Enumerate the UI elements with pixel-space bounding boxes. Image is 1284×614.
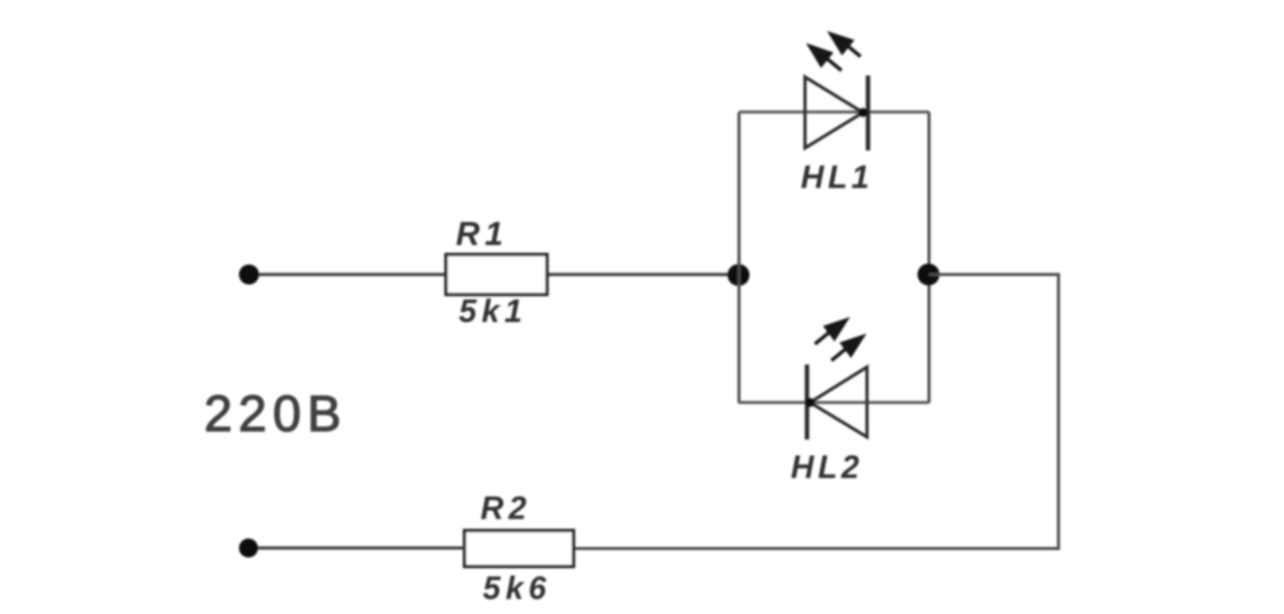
wire from R1 to left junction (547, 273, 739, 276)
node B : right junction (918, 264, 940, 286)
LED HL1 light-emission arrows (pointing up-left) (806, 31, 861, 71)
terminal node top-left (239, 265, 259, 285)
svg-text:R1: R1 (456, 215, 508, 252)
LED HL2 (cathode left, anode right) (806, 365, 868, 440)
wire : left rail of parallel branch (738, 112, 741, 403)
resistor R2 (465, 531, 574, 567)
svg-text:HL1: HL1 (801, 159, 873, 195)
svg-text:220В: 220В (204, 385, 347, 442)
svg-text:HL2: HL2 (791, 449, 863, 485)
node A : left junction (728, 264, 750, 286)
LED HL2 light-emission arrows (pointing up-right) (815, 317, 867, 361)
svg-text:5k1: 5k1 (459, 293, 527, 329)
wire : top branch through HL1 (739, 111, 929, 114)
svg-text:R2: R2 (481, 490, 532, 526)
resistor R1 (446, 255, 547, 295)
terminal node bottom-left (239, 539, 258, 558)
wire from node B right then down to bottom rail (574, 275, 1059, 549)
wire : right rail of parallel branch (928, 112, 931, 403)
wire : bottom branch through HL2 (739, 401, 929, 404)
wire from R2 to bottom-left terminal (258, 546, 465, 549)
wire from top-left terminal to R1 (259, 273, 446, 276)
svg-text:5k6: 5k6 (483, 570, 551, 606)
LED HL1 (anode left, cathode right) (805, 76, 868, 151)
